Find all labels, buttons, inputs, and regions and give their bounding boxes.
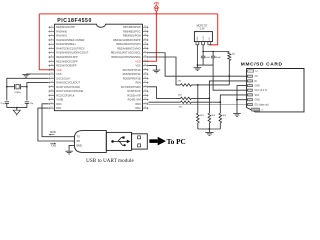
wire 3K3 R6 bottom lead: [208, 123, 210, 129]
svg-text:28: 28: [144, 77, 146, 79]
svg-text:RA3/AN3/VREF+: RA3/AN3/VREF+: [56, 42, 76, 46]
svg-text:7: 7: [51, 51, 52, 53]
USB plug metal tip: [132, 134, 148, 149]
svg-text:6: 6: [51, 47, 52, 49]
svg-text:RD1: RD1: [56, 106, 62, 110]
svg-text:VSS: VSS: [56, 72, 61, 76]
wire pin 18 stub (left): [48, 99, 54, 101]
wire crystal caps bottom join: [7, 107, 27, 109]
svg-text:RC5/D+/VP: RC5/D+/VP: [127, 93, 141, 97]
svg-text:3.3V: 3.3V: [200, 28, 205, 31]
wire RXD from RD0 pin19 to module TX: [42, 104, 75, 137]
wire 3.3V feed to SD VCC: [213, 58, 247, 90]
wire pin 7 stub (left): [48, 52, 54, 54]
wire SD GND pins common: [237, 86, 247, 114]
wire regulator GND leg to ground: [196, 45, 198, 68]
svg-text:RE2/AN7/OESPP: RE2/AN7/OESPP: [56, 64, 76, 68]
svg-text:20: 20: [51, 107, 53, 109]
svg-text:VCC (3.3 V): VCC (3.3 V): [255, 90, 268, 92]
wire 3K3 R5 bottom lead: [197, 123, 199, 129]
svg-text:32: 32: [144, 60, 146, 62]
wire pin 4 stub (left): [48, 39, 54, 41]
svg-text:RC7/RX/DT/SDO: RC7/RX/DT/SDO: [121, 85, 141, 89]
wire pin 37 stub (right): [143, 39, 149, 41]
svg-text:26: 26: [144, 85, 146, 87]
svg-text:RE3/MCLR/VPP: RE3/MCLR/VPP: [56, 25, 75, 29]
wire DI line from RC7 pin 26: [149, 87, 181, 99]
svg-text:OSC1/CLKI: OSC1/CLKI: [56, 76, 70, 80]
svg-text:+5V: +5V: [154, 1, 161, 5]
wire pin 28 stub (right): [143, 77, 149, 79]
svg-text:RB7/KBI3/PGD: RB7/KBI3/PGD: [123, 25, 141, 29]
svg-text:19: 19: [51, 102, 53, 104]
wire pin 13 stub (left): [48, 77, 54, 79]
wire pin 2 stub (left): [48, 30, 54, 32]
wire pin 36 stub (right): [143, 43, 149, 45]
wire pin 30 stub (right): [143, 69, 149, 71]
wire pin 39 stub (right): [143, 30, 149, 32]
wire pin 19 stub (left): [48, 103, 54, 105]
wire pin 25 stub (right): [143, 90, 149, 92]
svg-text:VDD: VDD: [135, 59, 141, 63]
wire 3.3V rail: [203, 51, 229, 53]
svg-text:RA6/OSC2/CLKOUT: RA6/OSC2/CLKOUT: [56, 81, 80, 85]
svg-text:PIC18F4550: PIC18F4550: [57, 18, 92, 24]
wire R1 to CS vertical: [191, 84, 229, 86]
svg-text:RB3/AN9/CCP2/VPO: RB3/AN9/CCP2/VPO: [116, 42, 140, 46]
resistor R2 2K2: [178, 95, 191, 100]
ground regulator: [194, 67, 202, 69]
wire pin 12 stub (left): [48, 73, 54, 75]
svg-text:SCK: SCK: [255, 95, 260, 97]
svg-text:GND: GND: [197, 36, 199, 41]
svg-text:RA5/AN4/SS/LVDIN/C2OUT: RA5/AN4/SS/LVDIN/C2OUT: [56, 51, 89, 55]
svg-text:23: 23: [144, 98, 146, 100]
wire SCK line: [149, 101, 181, 103]
wire R2 to DI node: [191, 97, 209, 99]
node SD pin 2 DI: [247, 80, 258, 83]
regulator U2 body: [194, 32, 212, 42]
wire regulator VOUT to 3.3V rail: [202, 45, 204, 52]
wire 3K3 R7 bottom lead: [219, 123, 221, 129]
USB trident icon: [111, 136, 130, 146]
node +5V power symbol: [154, 1, 161, 15]
svg-text:RD6/SPP6/P1C: RD6/SPP6/P1C: [123, 72, 141, 76]
wire +5V left drop to VDD pin 11: [39, 14, 54, 70]
node regulator leg VIN: [208, 42, 211, 45]
svg-text:DO (data out): DO (data out): [255, 104, 269, 107]
resistor R4 10k pullup: [228, 52, 236, 60]
ground crystal (triangle): [13, 110, 20, 114]
node To PC arrow: [149, 137, 166, 146]
svg-text:DI: DI: [255, 81, 258, 83]
svg-text:30: 30: [144, 68, 146, 70]
svg-text:RC6/TX/CK: RC6/TX/CK: [127, 89, 141, 93]
resistor R7 3K3: [219, 102, 227, 123]
svg-text:RC2/CCP1/P1A: RC2/CCP1/P1A: [56, 93, 74, 97]
wire +5V right drop to VDD pin 32: [143, 14, 157, 61]
svg-text:RD3: RD3: [135, 102, 141, 106]
svg-text:25: 25: [144, 90, 146, 92]
svg-text:RC0/T1OSO/T13CKI: RC0/T1OSO/T13CKI: [56, 85, 80, 89]
wire pin 14 stub (left): [48, 82, 54, 84]
resistor R5 3K3: [197, 85, 205, 123]
resistor R1 2K2: [178, 80, 192, 86]
wire pin 40 stub (right): [143, 26, 149, 28]
wire pin 29 stub (right): [143, 73, 149, 75]
svg-text:18: 18: [51, 98, 53, 100]
wire pin 34 stub (right): [143, 52, 149, 54]
svg-text:39: 39: [144, 30, 146, 32]
wire pin 22 stub (right): [143, 103, 149, 105]
node SD pin 7 DO (data out): [247, 103, 269, 106]
svg-text:29: 29: [144, 73, 146, 75]
node SD pin 3 GND: [247, 85, 260, 88]
svg-text:38: 38: [144, 34, 146, 36]
wire CS divider line from pin 35: [149, 57, 181, 85]
svg-text:RXD: RXD: [50, 130, 56, 134]
svg-text:27: 27: [144, 81, 146, 83]
svg-text:100nF: 100nF: [215, 57, 222, 59]
svg-text:GND: GND: [255, 86, 260, 88]
svg-text:9: 9: [51, 60, 52, 62]
svg-text:12: 12: [51, 73, 53, 75]
wire DI node up to SD DI pin: [209, 81, 246, 99]
wire pin 3 stub (left): [48, 35, 54, 37]
svg-text:RC1/T1OSI/CCP2/UOE: RC1/T1OSI/CCP2/UOE: [56, 89, 83, 93]
svg-text:RA4/T0CKI/C1OUT/RCV: RA4/T0CKI/C1OUT/RCV: [56, 46, 85, 50]
wire 10k to CS node: [228, 61, 230, 85]
svg-text:RD2: RD2: [135, 106, 141, 110]
svg-text:VSS: VSS: [135, 64, 140, 68]
capacitor C3 1.0uF: [201, 52, 211, 66]
wire TXD from RD1 pin20 to module RX: [38, 108, 74, 141]
wire pin 8 stub (left): [48, 56, 54, 58]
svg-text:MMC/SD CARD: MMC/SD CARD: [241, 62, 283, 68]
wire pin 5 stub (left): [48, 43, 54, 45]
svg-text:RC4/D-/VM: RC4/D-/VM: [128, 98, 141, 102]
svg-text:RB1/AN10/INT1/SCK/SCL: RB1/AN10/INT1/SCK/SCL: [111, 51, 141, 55]
svg-text:RD0: RD0: [56, 102, 62, 106]
wire pin 16 stub (left): [48, 90, 54, 92]
node RXD label: [49, 130, 56, 136]
svg-text:RX: RX: [77, 140, 81, 143]
svg-text:36: 36: [144, 43, 146, 45]
svg-text:40: 40: [144, 26, 146, 28]
svg-text:15: 15: [51, 85, 53, 87]
svg-text:RA1/AN1: RA1/AN1: [56, 34, 67, 38]
capacitor C2 22p: [25, 102, 34, 108]
svg-text:5: 5: [51, 43, 52, 45]
svg-text:GND: GND: [255, 100, 260, 102]
node SD pin 1 CS: [247, 75, 259, 78]
svg-text:RB0/AN12/INT0/SDI/SDA: RB0/AN12/INT0/SDI/SDA: [111, 55, 140, 59]
wire +5V drop to regulator VIN: [209, 14, 217, 45]
svg-text:31: 31: [144, 64, 146, 66]
svg-text:RA2/AN2/VREF-/CVREF: RA2/AN2/VREF-/CVREF: [56, 38, 85, 42]
node SD write protect switch: [248, 70, 254, 72]
svg-text:RB5/KBI1/PGM: RB5/KBI1/PGM: [123, 34, 141, 38]
capacitor C4 100nF: [211, 52, 222, 60]
wire CS direct from pin 34: [149, 53, 247, 76]
svg-text:3: 3: [51, 34, 52, 36]
wire pin 20 stub (left): [48, 107, 54, 109]
ground SD connector: [233, 113, 241, 115]
wire pin 1 stub (left): [48, 26, 54, 28]
svg-text:10: 10: [51, 64, 53, 66]
IC U1 PIC18F4550 body: [54, 24, 142, 111]
wire DO from SD to PIC RD3: [149, 104, 247, 106]
svg-text:33: 33: [144, 56, 146, 58]
node regulator leg VOUT: [202, 42, 205, 45]
connector J1 MMC/SD CARD body: [247, 69, 304, 112]
svg-text:24: 24: [144, 94, 146, 96]
wire pin 15 stub (left): [48, 86, 54, 88]
svg-text:RB2/AN8/INT2/VMO: RB2/AN8/INT2/VMO: [117, 46, 140, 50]
svg-text:2: 2: [51, 30, 52, 32]
wire pin 38 stub (right): [143, 35, 149, 37]
svg-text:8: 8: [51, 56, 52, 58]
wire pin 33 stub (right): [143, 56, 149, 58]
svg-text:11: 11: [51, 68, 53, 70]
svg-text:RE0/AN5/CK1SPP: RE0/AN5/CK1SPP: [56, 55, 78, 59]
node SD pin 5 SCK: [247, 94, 260, 97]
wire caps bottom to regulator ground: [197, 64, 213, 66]
wire pin 35 stub (right): [143, 47, 149, 49]
wire pin 10 stub (left): [48, 65, 54, 67]
svg-text:GND: GND: [76, 144, 82, 147]
svg-text:21: 21: [144, 107, 146, 109]
svg-text:VDD: VDD: [56, 68, 62, 72]
ground below USB module: [65, 150, 73, 152]
module M1 USB-to-UART body: [74, 131, 106, 153]
resistor R6 3K3: [208, 98, 216, 123]
wire pin 6 stub (left): [48, 47, 54, 49]
svg-text:1: 1: [51, 26, 52, 28]
wire pin 31 stub (right): [143, 65, 149, 67]
wire pin 9 stub (left): [48, 60, 54, 62]
svg-text:RB6/KBI2/PGC: RB6/KBI2/PGC: [123, 29, 141, 33]
wire 3K3 common rail: [198, 128, 221, 130]
svg-text:RA0/AN0: RA0/AN0: [56, 29, 67, 33]
svg-text:USB to UART module: USB to UART module: [86, 159, 134, 164]
svg-text:RE1/AN6/CK2SPP: RE1/AN6/CK2SPP: [56, 59, 78, 63]
svg-text:RD5/SPP5/P1B: RD5/SPP5/P1B: [123, 76, 141, 80]
node regulator leg GND: [196, 42, 199, 45]
ground at PIC pin 31 VSS: [149, 66, 157, 70]
ground level shifter rail: [205, 131, 213, 133]
node SD card detect switch: [251, 108, 259, 111]
wire pin 23 stub (right): [143, 99, 149, 101]
svg-text:RB4/AN11/KBI0/CSSPP: RB4/AN11/KBI0/CSSPP: [113, 38, 141, 42]
node TXD label: [50, 143, 56, 148]
wire pin 26 stub (right): [143, 86, 149, 88]
svg-text:17: 17: [51, 94, 53, 96]
wire OSC2 pin14: [27, 83, 49, 101]
wire pin 24 stub (right): [143, 94, 149, 96]
wire pin 11 stub (left): [48, 69, 54, 71]
wire +5V top horizontal rail: [39, 13, 217, 15]
svg-text:TX: TX: [77, 136, 81, 139]
svg-text:37: 37: [144, 38, 146, 40]
node SD pin 4 VCC (3.3 V): [247, 89, 268, 92]
wire R3 to SCK node: [191, 101, 220, 103]
svg-text:VUSB: VUSB: [56, 98, 63, 102]
svg-text:4: 4: [51, 38, 52, 40]
svg-text:16: 16: [51, 90, 53, 92]
wire pin 32 stub (right): [143, 60, 149, 62]
svg-text:RD4: RD4: [135, 81, 141, 85]
svg-text:8 MHz: 8 MHz: [15, 92, 21, 94]
wire OSC1 pin13: [7, 78, 49, 100]
wire pin 27 stub (right): [143, 82, 149, 84]
ground at PIC pin 12 VSS: [26, 73, 48, 75]
svg-text:CS: CS: [255, 76, 259, 78]
USB plug body: [106, 132, 131, 150]
svg-text:22: 22: [144, 102, 146, 104]
wire pin 21 stub (right): [143, 107, 149, 109]
wire pin 17 stub (left): [48, 94, 54, 96]
svg-text:35: 35: [144, 47, 146, 49]
svg-text:RD7/SPP7/P1D: RD7/SPP7/P1D: [123, 68, 141, 72]
svg-text:13: 13: [51, 77, 53, 79]
svg-text:VOUT: VOUT: [203, 35, 205, 41]
crystal X1: [7, 84, 27, 94]
svg-text:1.0uF: 1.0uF: [205, 57, 211, 59]
node SD pin 6 GND: [247, 99, 260, 102]
capacitor C1 22p: [1, 102, 9, 108]
wire SCK node up to SD SCK pin: [220, 95, 246, 102]
wire rail to ground: [208, 129, 210, 132]
svg-text:34: 34: [144, 51, 146, 53]
svg-text:To PC: To PC: [167, 138, 186, 146]
svg-text:14: 14: [51, 81, 53, 83]
resistor R3 2K2: [179, 101, 192, 108]
svg-text:TXD: TXD: [51, 144, 56, 148]
wire module GND to ground: [69, 145, 75, 151]
